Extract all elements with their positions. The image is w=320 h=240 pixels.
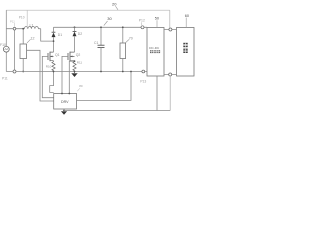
wire output return drop: [169, 76, 171, 111]
svg-text:50: 50: [155, 16, 159, 20]
wire left vertical: [5, 10, 7, 71]
wire inter-box top: [164, 29, 177, 31]
resistor RV1: [20, 44, 27, 59]
ground: [61, 110, 67, 112]
svg-text:D1: D1: [58, 33, 62, 37]
ground: [74, 71, 76, 73]
resistor R12: [122, 27, 124, 43]
svg-text:R11: R11: [77, 61, 83, 65]
terminal bottom output: [169, 73, 172, 76]
text converter (CJK blobs): [150, 50, 160, 53]
wire varistor branch top: [22, 29, 24, 44]
controller U1: [54, 94, 77, 110]
wire R1 sense route: [50, 72, 54, 93]
wire Q1 gate: [42, 56, 53, 97]
terminal P13: [142, 70, 145, 73]
junction dots controller top: [61, 93, 63, 95]
resistor R1: [52, 61, 55, 72]
svg-text:80: 80: [79, 84, 83, 88]
svg-text:Q2: Q2: [76, 53, 81, 57]
svg-text:D2: D2: [78, 32, 82, 36]
terminal P12: [141, 26, 144, 29]
text load (CJK blobs): [183, 43, 187, 53]
label 70 leader: [126, 40, 129, 43]
wire feedback: [77, 72, 132, 101]
AC source G1: [3, 46, 9, 52]
svg-text:P10: P10: [19, 15, 25, 19]
transistor Q2: [67, 53, 69, 60]
wire Q2 gate: [62, 56, 68, 93]
junction dot: [22, 71, 24, 73]
svg-text:70: 70: [129, 36, 133, 40]
transistor Q1: [53, 41, 55, 52]
wire varistor tap: [27, 50, 54, 101]
wire top rail drop: [169, 10, 171, 28]
svg-text:12: 12: [31, 36, 35, 40]
wire plug branch: [14, 30, 16, 70]
svg-text:L1: L1: [30, 24, 34, 28]
svg-text:Q1: Q1: [55, 53, 60, 57]
wire sense tap: [69, 61, 74, 93]
inductor L1: [24, 27, 38, 29]
svg-text:DRV: DRV: [61, 100, 69, 104]
wire inter-box bottom: [164, 74, 177, 76]
terminal top output: [169, 28, 172, 31]
svg-text:F10: F10: [0, 43, 6, 47]
wire controller ground stem: [63, 109, 65, 111]
wire leader for 30: [104, 21, 108, 26]
capacitor C1: [100, 27, 102, 45]
wire inductor rail: [6, 28, 40, 30]
load box 60: [177, 28, 195, 77]
svg-text:P13: P13: [140, 80, 146, 84]
svg-text:R10: R10: [46, 64, 52, 68]
wire P10 stub: [26, 10, 28, 29]
diode D1: [53, 27, 55, 41]
svg-text:30: 30: [107, 16, 112, 21]
svg-text:60: 60: [185, 14, 189, 18]
junction dot: [22, 28, 24, 30]
DC-DC converter box 50: [147, 28, 164, 77]
svg-text:C1: C1: [94, 41, 98, 45]
wire top rail: [6, 9, 170, 11]
wire DC-DC ground drop: [156, 76, 158, 111]
resistor R2: [73, 61, 76, 72]
svg-text:20: 20: [112, 2, 117, 7]
label 12 leader: [27, 39, 31, 43]
wire varistor branch bottom: [22, 59, 24, 72]
svg-text:P11: P11: [2, 77, 8, 81]
terminal top plug: [13, 27, 16, 30]
svg-text:DC-DC: DC-DC: [149, 46, 160, 50]
terminal P11: [13, 70, 16, 73]
wire bottom return rail: [64, 110, 170, 112]
diode D2: [74, 26, 76, 28]
wire output rail: [54, 26, 148, 28]
wire bottom rail: [6, 71, 147, 73]
svg-text:P12: P12: [139, 19, 145, 23]
wire step corner: [41, 29, 54, 41]
wire leader for 20: [116, 6, 119, 10]
